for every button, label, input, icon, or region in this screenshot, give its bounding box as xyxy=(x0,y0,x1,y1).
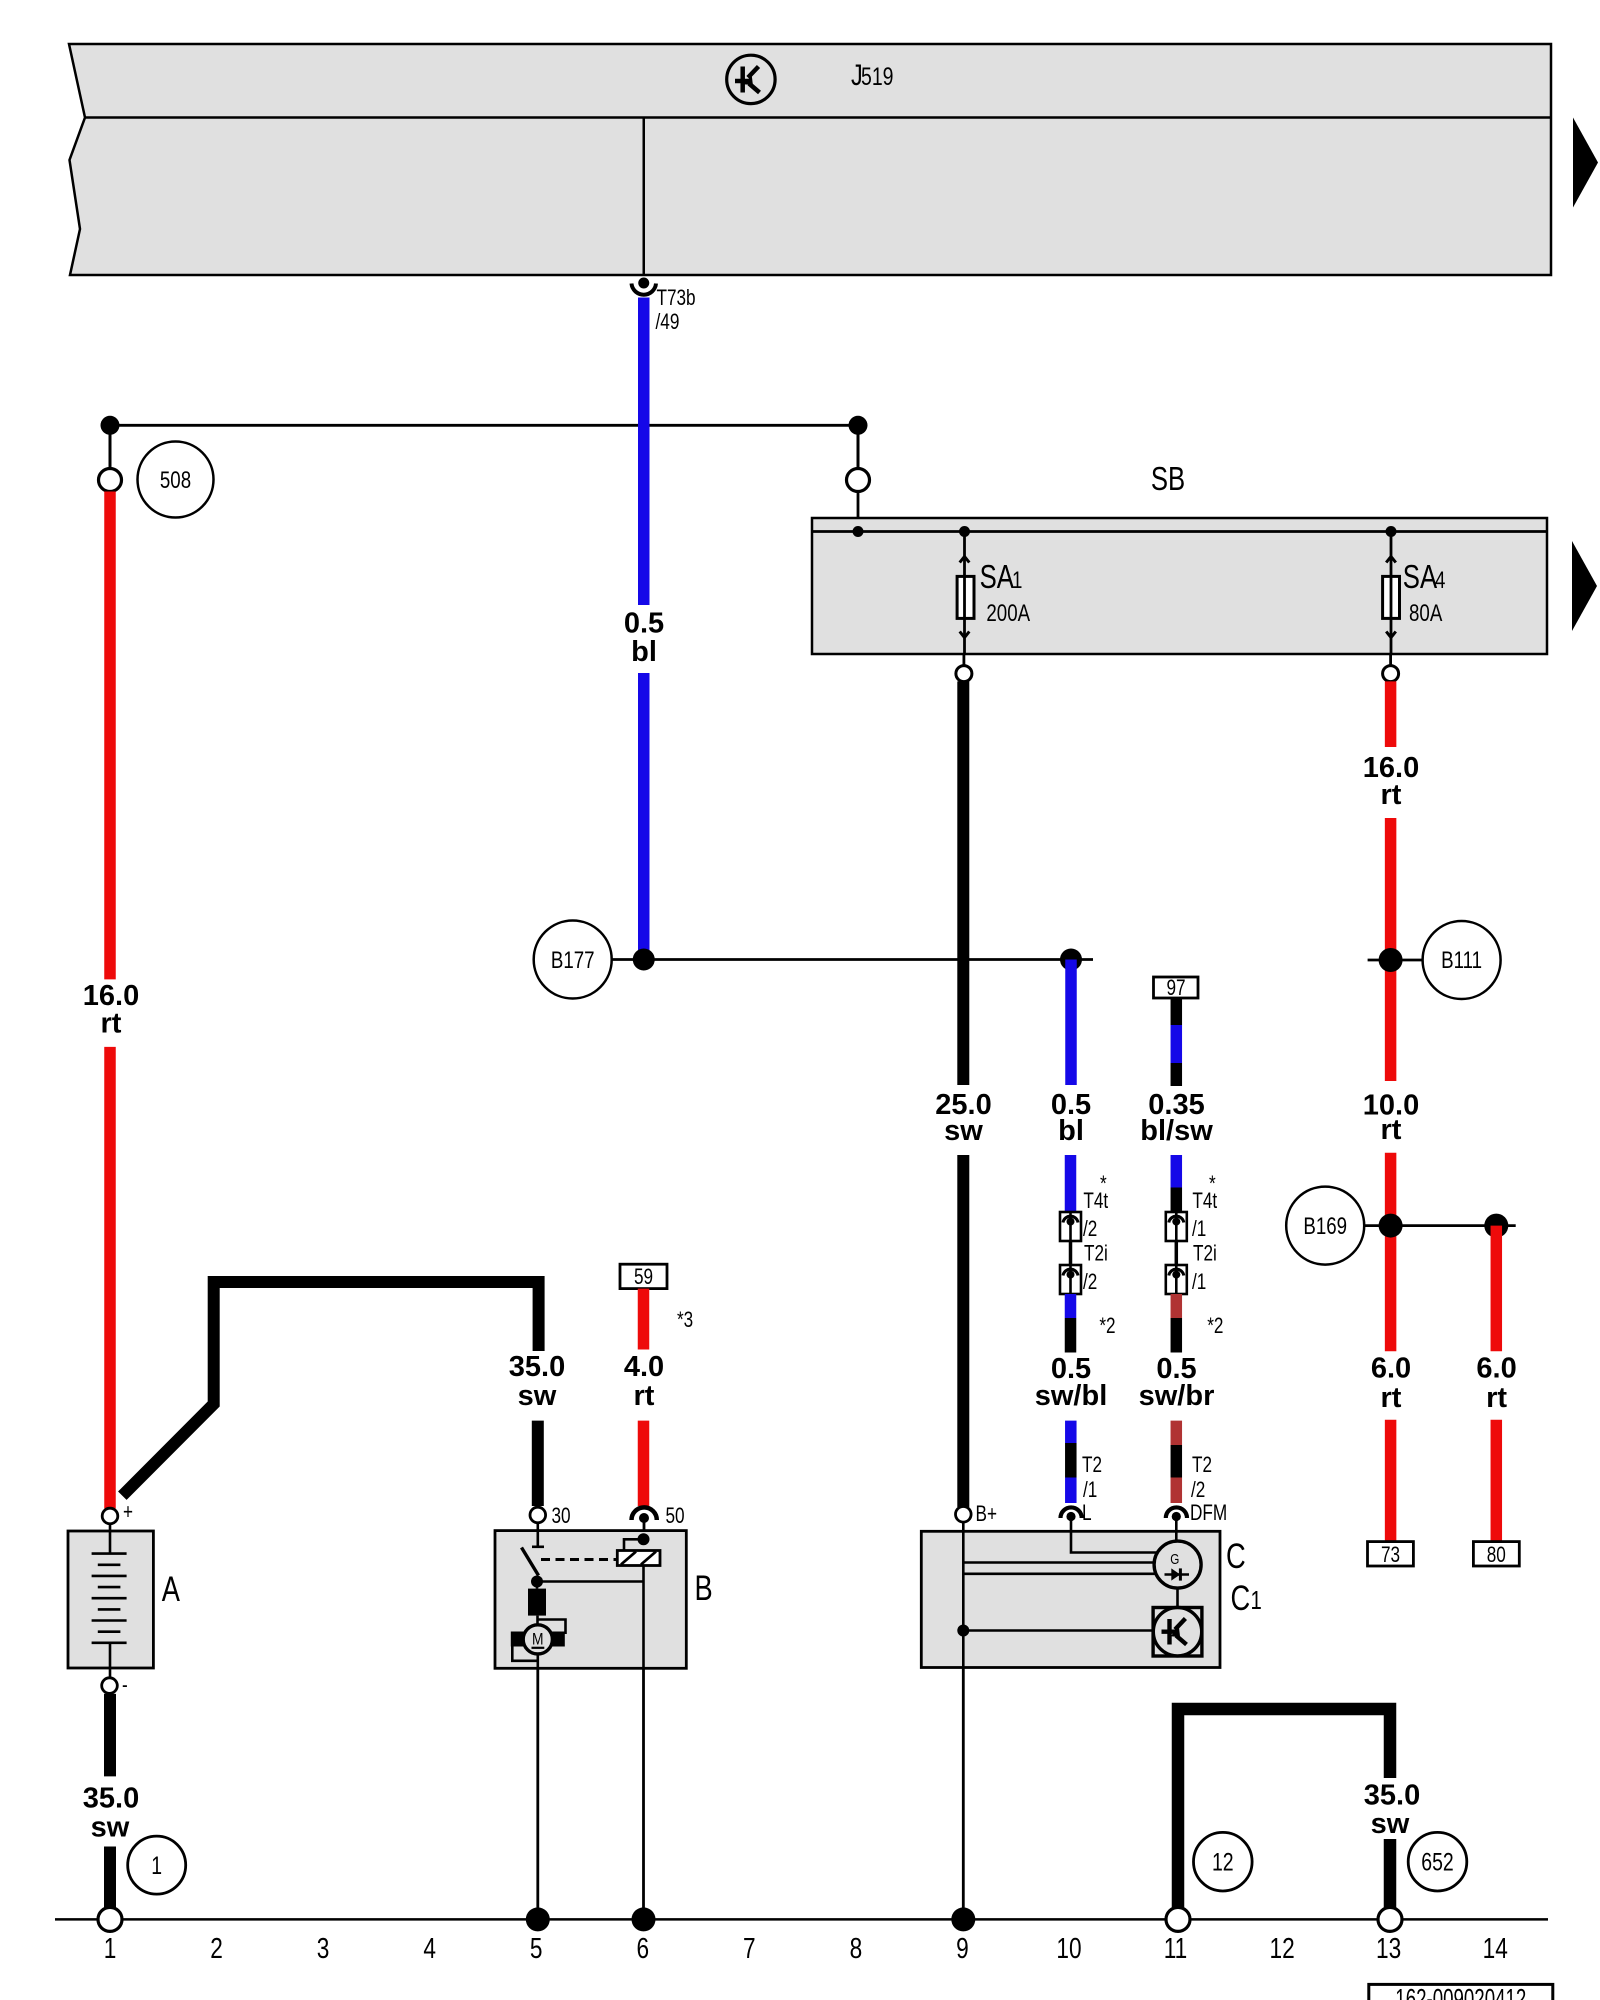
exciter line upper xyxy=(963,1561,1165,1564)
wire 0.5 bl upper segment from T73b xyxy=(638,298,650,606)
junction dot position 9 xyxy=(951,1907,975,1931)
fuse SA4 clip bottom xyxy=(1386,632,1396,638)
junction dot SA4 tap xyxy=(1386,526,1397,537)
svg-text:G: G xyxy=(1170,1551,1179,1568)
wire 0.5 bl to connector T4t xyxy=(1065,1155,1077,1213)
wire from eyelet into SB xyxy=(857,492,860,532)
stub to eyelet SA4 xyxy=(1389,654,1392,666)
svg-text:9: 9 xyxy=(956,1933,969,1965)
wire link between connectors xyxy=(1175,1241,1179,1265)
svg-text:14: 14 xyxy=(1483,1933,1508,1965)
relay coil feed elbow xyxy=(624,1539,644,1550)
svg-text:652: 652 xyxy=(1421,1849,1454,1877)
motor armature link right xyxy=(538,1620,566,1635)
wire 35.0 sw battery ground upper xyxy=(104,1694,116,1777)
svg-text:4: 4 xyxy=(423,1933,436,1965)
svg-text:sw: sw xyxy=(91,1811,130,1843)
generator diode symbol xyxy=(1165,1573,1190,1575)
svg-text:sw: sw xyxy=(518,1380,557,1412)
svg-text:L: L xyxy=(1082,1500,1092,1525)
fuse SA4 clip top xyxy=(1386,557,1396,563)
wire sw/bl stripe to terminal L xyxy=(1065,1421,1077,1443)
stub to eyelet left xyxy=(109,425,112,468)
svg-text:97: 97 xyxy=(1166,975,1185,1000)
ground connector circle position 13 xyxy=(1378,1907,1402,1931)
terminal 80 tag box xyxy=(1473,1542,1519,1566)
eyelet connector 508 feed xyxy=(99,469,122,492)
connector T4t/1 xyxy=(1166,1212,1187,1241)
svg-text:10: 10 xyxy=(1056,1933,1081,1965)
starter switch feed from 30 xyxy=(536,1523,539,1547)
svg-text:T73b: T73b xyxy=(657,285,696,310)
terminal 97 tag box xyxy=(1154,977,1199,998)
svg-text:B169: B169 xyxy=(1303,1213,1347,1240)
junction dot regulator feed xyxy=(957,1625,969,1637)
svg-text:200A: 200A xyxy=(986,600,1030,627)
svg-text:80: 80 xyxy=(1487,1542,1506,1567)
svg-text:6.0: 6.0 xyxy=(1371,1353,1411,1385)
battery A body xyxy=(68,1531,153,1668)
link field to motor xyxy=(536,1616,539,1625)
terminal 50 clamp arc xyxy=(632,1507,657,1520)
svg-text:/2: /2 xyxy=(1191,1477,1205,1502)
junction dot position 6 xyxy=(632,1907,656,1931)
svg-text:/1: /1 xyxy=(1192,1216,1206,1241)
fuse SA1 body xyxy=(957,576,974,618)
svg-text:7: 7 xyxy=(743,1933,756,1965)
wire 6.0 rt to tag 73 xyxy=(1385,1420,1397,1542)
svg-text:T2: T2 xyxy=(1082,1452,1102,1477)
svg-text:bl: bl xyxy=(1058,1115,1084,1147)
svg-text:bl: bl xyxy=(631,636,657,668)
svg-text:/2: /2 xyxy=(1083,1269,1097,1294)
wire 35.0 sw to ground point 652 xyxy=(1384,1839,1397,1908)
svg-text:3: 3 xyxy=(317,1933,330,1965)
fuse SA4 body xyxy=(1383,576,1400,618)
node B169 link line xyxy=(1364,1224,1516,1227)
battery A cell plates xyxy=(92,1524,127,1678)
fuse SA4 lead xyxy=(1390,532,1393,656)
svg-text:1: 1 xyxy=(104,1933,117,1965)
svg-text:T2: T2 xyxy=(1192,1452,1212,1477)
wire sw/br stripe to terminal DFM xyxy=(1171,1421,1183,1445)
wire 10.0 rt to node B169 xyxy=(1385,1153,1397,1352)
svg-text:rt: rt xyxy=(634,1380,655,1412)
diagram number plate xyxy=(1369,1984,1553,2000)
junction dot B177 at generator warning wire xyxy=(1060,949,1082,971)
svg-text:sw: sw xyxy=(1371,1808,1410,1840)
junction dot switch output xyxy=(531,1576,543,1588)
svg-text:/49: /49 xyxy=(656,309,680,334)
terminal 30 connector circle xyxy=(530,1507,546,1523)
wire starter motor to ground rail xyxy=(536,1668,539,1919)
motor ground leg xyxy=(536,1654,539,1668)
svg-text:A: A xyxy=(162,1570,181,1609)
wire B177 horizontal link xyxy=(612,958,1093,961)
wire link between connectors xyxy=(1069,1241,1073,1265)
connector T2i/2 xyxy=(1060,1265,1081,1294)
node B111 stub line xyxy=(1368,959,1423,962)
J519 internal divider line xyxy=(85,116,1551,119)
connector T73b/49 pin symbol xyxy=(638,278,649,289)
stub to eyelet SA1 xyxy=(963,654,966,666)
svg-text:2: 2 xyxy=(210,1933,223,1965)
node B111 reference circle xyxy=(1423,921,1501,999)
wire relay return to ground rail xyxy=(642,1668,645,1919)
fuse SA1 clip bottom xyxy=(960,632,970,638)
lamp L line into generator xyxy=(1071,1531,1165,1552)
fuse SA1 lead xyxy=(963,532,966,656)
regulator K symbol strokes xyxy=(1162,1619,1187,1645)
svg-text:*2: *2 xyxy=(1207,1313,1223,1338)
starter switch fixed contact tick xyxy=(532,1546,544,1549)
svg-text:4: 4 xyxy=(1435,567,1445,594)
actuation dashed link xyxy=(541,1558,617,1561)
node B177 reference circle xyxy=(534,921,612,999)
ground connector circle position 11 xyxy=(1166,1907,1190,1931)
svg-text:30: 30 xyxy=(552,1503,571,1528)
svg-text:1: 1 xyxy=(151,1852,162,1880)
alternator C body xyxy=(921,1531,1220,1667)
svg-text:1: 1 xyxy=(1251,1585,1262,1615)
node B169 reference circle xyxy=(1286,1187,1364,1265)
svg-text:M: M xyxy=(532,1630,544,1649)
bus bar inside SB xyxy=(813,530,1547,533)
svg-text:B177: B177 xyxy=(551,947,595,974)
relay coil hatches xyxy=(621,1552,636,1565)
wire: plus connection row y=425 xyxy=(110,424,858,427)
svg-text:12: 12 xyxy=(1270,1933,1295,1965)
starter B body xyxy=(495,1531,686,1669)
wire 35.0 sw from battery positive to starter terminal 30 xyxy=(122,1282,538,1496)
wire 35.0 sw alternator ground strap xyxy=(1178,1709,1390,1908)
connector T4t/2 xyxy=(1060,1212,1081,1241)
ground node 1 reference circle xyxy=(128,1836,186,1894)
svg-text:508: 508 xyxy=(160,467,191,494)
svg-text:sw/bl: sw/bl xyxy=(1035,1380,1108,1412)
ground node 12 reference circle xyxy=(1194,1832,1253,1891)
junction dot SA1 tap xyxy=(959,526,970,537)
ground connector circle position 1 xyxy=(98,1907,122,1931)
wire 25.0 sw upper segment from SA1 xyxy=(957,681,969,1085)
wire 16.0 rt from SA4 xyxy=(1385,681,1397,747)
svg-text:59: 59 xyxy=(634,1264,653,1289)
wire sw/bl stripe below connector xyxy=(1065,1294,1077,1318)
DFM drop xyxy=(1175,1531,1178,1545)
svg-text:C: C xyxy=(1226,1537,1246,1576)
ground rail xyxy=(55,1918,1548,1921)
svg-text:162-009020412: 162-009020412 xyxy=(1395,1983,1526,2000)
svg-text:DFM: DFM xyxy=(1190,1500,1227,1525)
connector T2i/1 xyxy=(1166,1265,1187,1294)
svg-text:73: 73 xyxy=(1381,1542,1400,1567)
motor brush left xyxy=(511,1632,524,1647)
svg-text:13: 13 xyxy=(1376,1933,1401,1965)
svg-text:SA: SA xyxy=(1403,558,1437,595)
wire 6.0 rt right branch from B169 xyxy=(1491,1226,1503,1352)
motor brush left return xyxy=(512,1647,538,1661)
eyelet connector SB feed xyxy=(847,469,870,492)
wire 16.0 rt upper segment (battery positive feed) xyxy=(104,492,116,980)
svg-text:B: B xyxy=(695,1569,713,1608)
wire 0.5 bl lower segment to node B177 xyxy=(638,673,650,955)
regulator feed line xyxy=(963,1629,1165,1632)
junction dot B169 right xyxy=(1484,1214,1508,1238)
continuation arrow right of SB xyxy=(1572,541,1597,631)
junction dot bus feed xyxy=(853,526,864,537)
switch output rail xyxy=(537,1580,644,1583)
wire 16.0 rt to node B111 xyxy=(1385,818,1397,1081)
svg-text:50: 50 xyxy=(666,1503,685,1528)
svg-text:/2: /2 xyxy=(1083,1216,1097,1241)
fuse box SB body xyxy=(812,518,1547,654)
svg-text:35.0: 35.0 xyxy=(83,1782,139,1814)
wire 35.0 sw to terminal 30 xyxy=(532,1421,544,1506)
svg-text:80A: 80A xyxy=(1409,600,1442,627)
junction dot right xyxy=(849,416,868,435)
svg-text:11: 11 xyxy=(1164,1933,1188,1965)
svg-text:/1: /1 xyxy=(1083,1477,1097,1502)
terminal 59 tag box xyxy=(620,1264,667,1288)
svg-text:B111: B111 xyxy=(1441,947,1482,974)
svg-text:rt: rt xyxy=(1381,1382,1402,1414)
junction dot position 5 xyxy=(526,1907,550,1931)
wire 4.0 rt from tag 59 xyxy=(638,1289,650,1350)
svg-text:0.5: 0.5 xyxy=(624,608,664,640)
fuse SA1 clip top xyxy=(960,557,970,563)
wire alternator to ground rail xyxy=(962,1668,965,1920)
relay coil box xyxy=(617,1551,660,1566)
B+ feed drop inside C xyxy=(962,1522,965,1667)
generator to regulator link xyxy=(1176,1588,1179,1607)
generator G symbol xyxy=(1154,1541,1201,1588)
svg-text:12: 12 xyxy=(1212,1849,1234,1877)
wire 6.0 rt to tag 80 xyxy=(1491,1420,1503,1542)
junction dot under relay pin 50 xyxy=(638,1533,650,1545)
voltage regulator symbol circle in J519 xyxy=(727,55,775,103)
svg-text:rt: rt xyxy=(1486,1382,1507,1414)
svg-text:1: 1 xyxy=(1012,567,1022,594)
node 508 reference circle xyxy=(138,442,214,518)
svg-text:*3: *3 xyxy=(677,1307,693,1332)
svg-text:sw/br: sw/br xyxy=(1139,1380,1215,1412)
ground node 652 reference circle xyxy=(1408,1832,1467,1891)
svg-text:bl/sw: bl/sw xyxy=(1140,1115,1213,1147)
svg-text:T2i: T2i xyxy=(1084,1241,1108,1266)
svg-text:B+: B+ xyxy=(976,1501,998,1526)
wire 0.5 bl segment below B177 xyxy=(1065,960,1077,1086)
wire bl/sw stripe to connector T4t xyxy=(1171,1155,1183,1188)
wire 4.0 rt to terminal 50 xyxy=(638,1421,650,1506)
svg-text:*2: *2 xyxy=(1099,1313,1115,1338)
svg-text:8: 8 xyxy=(850,1933,863,1965)
wire sw/br stripe below connector xyxy=(1171,1294,1183,1318)
eyelet under SA4 xyxy=(1383,666,1399,682)
voltage regulator C1 box xyxy=(1153,1608,1202,1657)
svg-text:sw: sw xyxy=(944,1115,983,1147)
svg-text:rt: rt xyxy=(1381,1114,1402,1146)
svg-text:+: + xyxy=(123,1499,133,1524)
terminal 73 tag box xyxy=(1368,1542,1414,1566)
regulator K symbol strokes xyxy=(735,67,760,93)
svg-text:SB: SB xyxy=(1151,460,1185,497)
exciter line lower xyxy=(963,1573,1165,1576)
svg-text:C: C xyxy=(1231,1579,1251,1618)
coil return drop xyxy=(642,1566,645,1582)
terminal B+ connector circle xyxy=(956,1507,972,1523)
terminal DFM clamp arc xyxy=(1166,1507,1187,1518)
motor brush right xyxy=(552,1632,565,1647)
svg-text:/1: /1 xyxy=(1192,1269,1206,1294)
svg-text:-: - xyxy=(122,1672,128,1697)
starter ground leg inside B xyxy=(642,1582,645,1669)
svg-text:T2i: T2i xyxy=(1193,1241,1217,1266)
svg-text:519: 519 xyxy=(861,63,894,91)
svg-text:rt: rt xyxy=(101,1008,122,1040)
svg-text:rt: rt xyxy=(1381,779,1402,811)
junction dot B169 left xyxy=(1379,1214,1403,1238)
svg-text:T4t: T4t xyxy=(1192,1188,1217,1213)
svg-text:SA: SA xyxy=(980,558,1014,595)
continuation arrow right of J519 xyxy=(1573,118,1598,208)
battery A plus terminal xyxy=(102,1508,118,1524)
junction dot B111 xyxy=(1379,948,1403,972)
svg-text:T4t: T4t xyxy=(1083,1188,1108,1213)
svg-text:6: 6 xyxy=(637,1933,650,1965)
stub to eyelet right xyxy=(857,425,860,468)
control module J519 body xyxy=(69,44,1551,275)
wire 16.0 rt lower segment xyxy=(104,1047,116,1509)
svg-text:5: 5 xyxy=(530,1933,543,1965)
terminal L clamp arc xyxy=(1061,1507,1082,1518)
wire 0.35 bl/sw stripe from tag 97 xyxy=(1171,998,1183,1025)
motor M1 circle xyxy=(523,1625,552,1654)
svg-text:4.0: 4.0 xyxy=(624,1351,664,1383)
wire 25.0 sw lower segment to B+ xyxy=(957,1155,969,1507)
wire 35.0 sw battery ground lower xyxy=(104,1847,116,1909)
junction dot left xyxy=(101,416,120,435)
svg-text:35.0: 35.0 xyxy=(509,1351,565,1383)
starter switch blade xyxy=(522,1548,539,1576)
wire inside J519 down to pin T73b/49 xyxy=(643,118,646,277)
battery A minus terminal xyxy=(102,1678,118,1694)
svg-text:6.0: 6.0 xyxy=(1476,1353,1516,1385)
junction dot B177 at blue wire xyxy=(633,949,655,971)
field winding block xyxy=(536,1582,539,1589)
eyelet under SA1 xyxy=(956,666,972,682)
